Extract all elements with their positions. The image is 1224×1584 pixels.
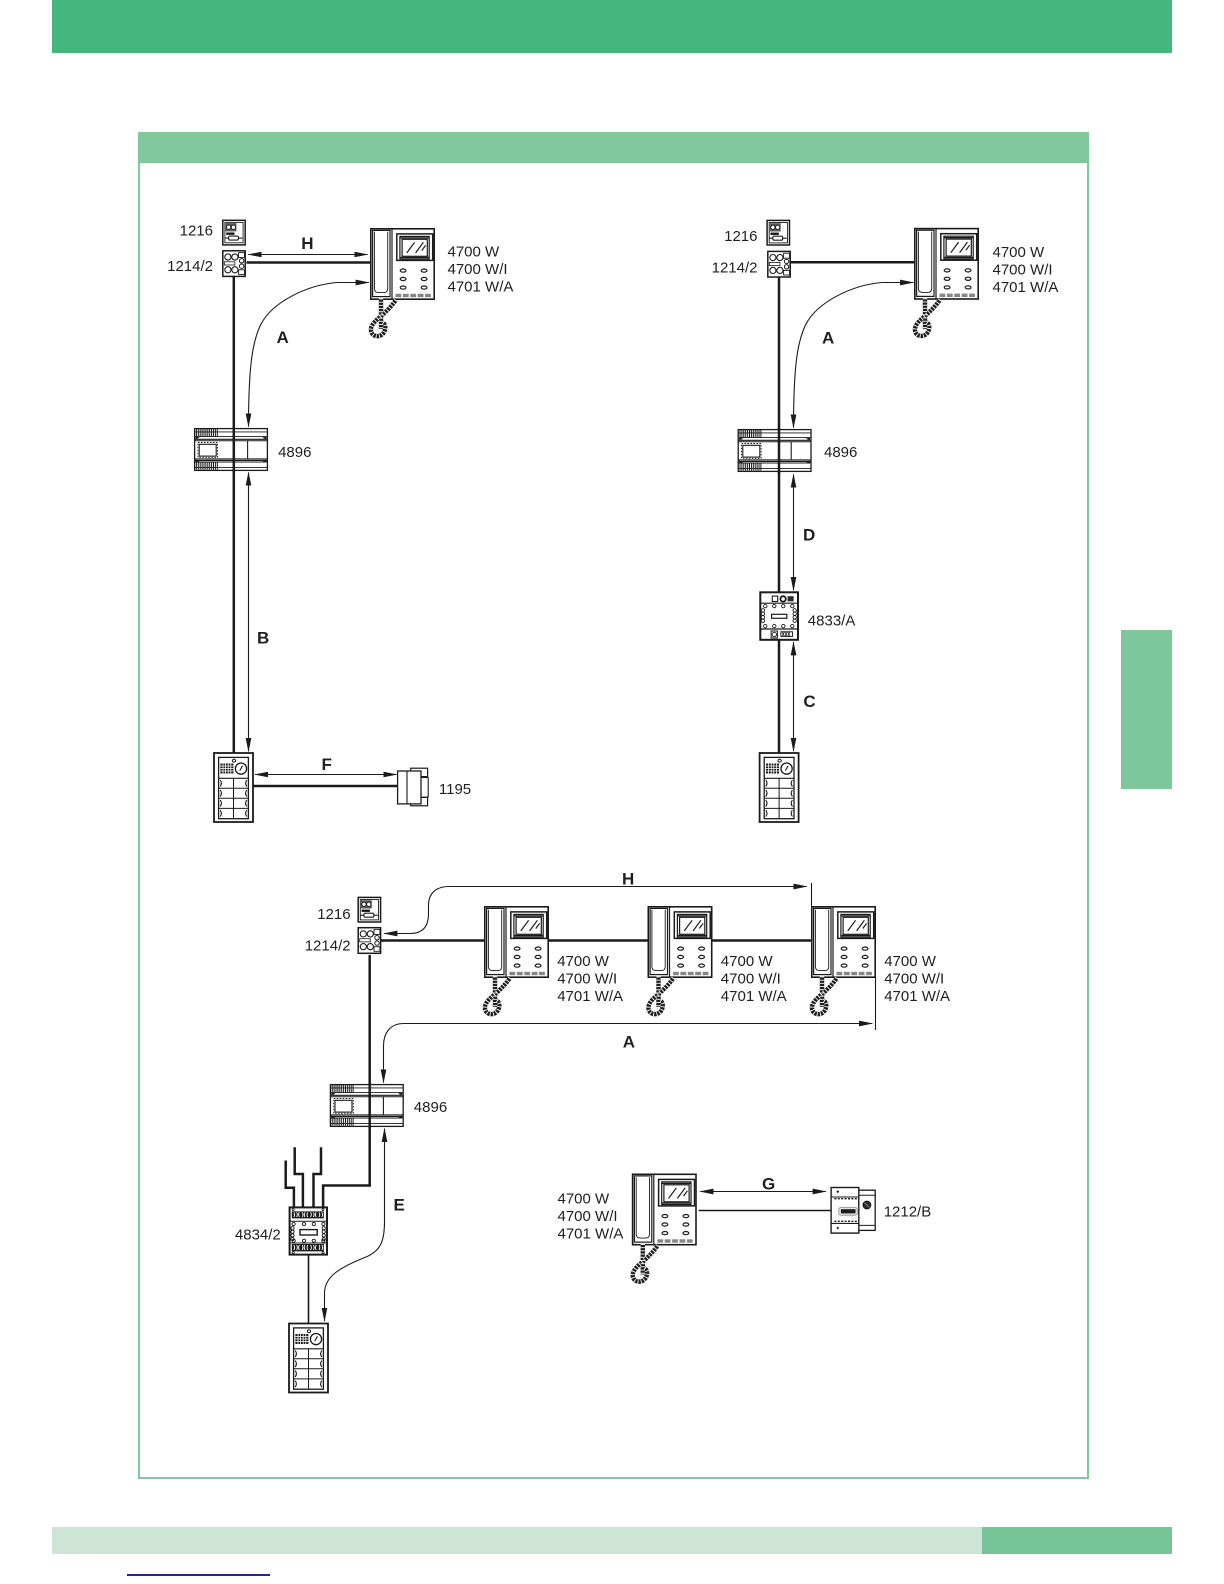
svg-text:4700 W/I: 4700 W/I xyxy=(884,971,944,988)
svg-text:1214/2: 1214/2 xyxy=(167,258,213,275)
svg-text:1195: 1195 xyxy=(439,781,471,798)
svg-text:H: H xyxy=(622,870,634,889)
svg-text:4700 W: 4700 W xyxy=(557,953,610,970)
svg-text:4896: 4896 xyxy=(278,444,311,461)
svg-text:4700 W/I: 4700 W/I xyxy=(558,1208,618,1225)
svg-text:1214/2: 1214/2 xyxy=(712,260,758,277)
svg-text:D: D xyxy=(803,526,815,545)
svg-text:4700 W/I: 4700 W/I xyxy=(993,261,1053,278)
svg-text:H: H xyxy=(301,234,313,253)
svg-text:F: F xyxy=(322,755,332,774)
svg-text:4701 W/A: 4701 W/A xyxy=(721,988,787,1005)
svg-text:4896: 4896 xyxy=(824,444,857,461)
svg-text:4701 W/A: 4701 W/A xyxy=(884,988,950,1005)
svg-text:4700 W: 4700 W xyxy=(993,244,1046,261)
svg-text:1216: 1216 xyxy=(317,906,350,923)
svg-text:1216: 1216 xyxy=(180,223,213,240)
svg-text:4700 W/I: 4700 W/I xyxy=(448,261,508,278)
svg-text:4701 W/A: 4701 W/A xyxy=(993,279,1059,296)
svg-text:1212/B: 1212/B xyxy=(884,1203,932,1220)
svg-text:4833/A: 4833/A xyxy=(808,613,856,630)
svg-text:C: C xyxy=(803,692,815,711)
svg-text:4834/2: 4834/2 xyxy=(235,1227,281,1244)
svg-text:4701 W/A: 4701 W/A xyxy=(557,988,623,1005)
svg-text:A: A xyxy=(623,1033,635,1052)
svg-text:4700 W/I: 4700 W/I xyxy=(721,971,781,988)
svg-text:B: B xyxy=(257,628,269,647)
svg-text:4700 W: 4700 W xyxy=(884,953,937,970)
svg-text:4700 W/I: 4700 W/I xyxy=(557,971,617,988)
svg-text:4700 W: 4700 W xyxy=(721,953,774,970)
svg-text:4701 W/A: 4701 W/A xyxy=(558,1226,624,1243)
svg-text:1216: 1216 xyxy=(724,228,757,245)
svg-text:4700 W: 4700 W xyxy=(558,1191,611,1208)
svg-text:A: A xyxy=(277,328,289,347)
svg-text:E: E xyxy=(394,1196,405,1215)
svg-text:A: A xyxy=(822,329,834,348)
svg-text:4701 W/A: 4701 W/A xyxy=(448,278,514,295)
svg-text:4896: 4896 xyxy=(414,1099,447,1116)
svg-text:G: G xyxy=(762,1175,775,1194)
svg-text:4700 W: 4700 W xyxy=(448,243,501,260)
svg-text:1214/2: 1214/2 xyxy=(305,938,351,955)
